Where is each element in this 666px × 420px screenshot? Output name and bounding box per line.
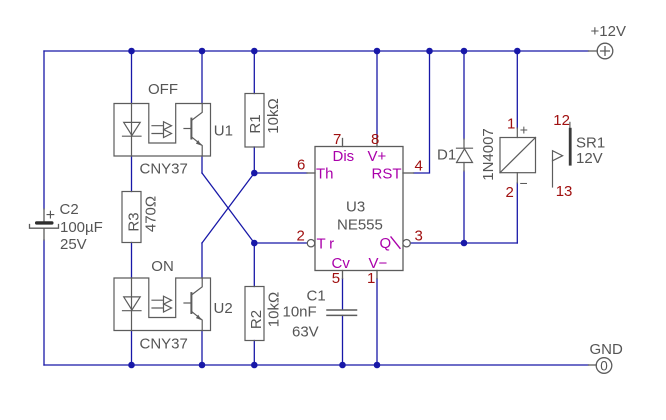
svg-text:+: +: [46, 207, 55, 224]
svg-text:V+: V+: [368, 148, 387, 165]
svg-text:R2: R2: [248, 310, 265, 329]
svg-text:U3: U3: [346, 199, 365, 216]
svg-text:1: 1: [507, 116, 515, 133]
wire: top rail to U1 LED anode: [131, 51, 133, 104]
wire: pin 1 V- to ground rail: [376, 279, 378, 366]
junction top rail at pin 8: [374, 48, 381, 55]
svg-text:3: 3: [415, 228, 423, 245]
wire: U2 emitter to ground rail: [201, 331, 203, 366]
wire: pin 5 Cv to C1 top: [342, 279, 344, 310]
wire: R2 bottom to ground rail: [253, 341, 255, 366]
junction node Th/R1: [251, 170, 258, 177]
svg-text:SR1: SR1: [576, 135, 605, 152]
wire: top rail to D1 cathode: [463, 51, 465, 139]
junction top rail at U1 LED: [128, 48, 135, 55]
wire: pin 4 RST to top rail: [414, 51, 430, 173]
junction Q line at D1: [461, 240, 468, 247]
ground terminal GND: [589, 358, 612, 374]
diode D1: [457, 139, 473, 171]
junction ground rail at pin 1: [374, 362, 381, 369]
pin stub 5 Cv: [342, 271, 344, 279]
svg-text:7: 7: [333, 131, 341, 148]
wire: Tr node to pin 2 bubble: [254, 242, 307, 244]
pin stub 7 Dis: [342, 139, 344, 147]
relay SR1 contact: [553, 122, 571, 187]
svg-text:NE555: NE555: [337, 217, 383, 234]
svg-text:CNY37: CNY37: [140, 161, 188, 178]
svg-text:10kΩ: 10kΩ: [265, 98, 282, 133]
wire: U2 LED cathode to ground rail: [131, 331, 133, 366]
svg-text:4: 4: [415, 158, 423, 175]
pin 2 inverting bubble: [307, 240, 314, 247]
optocoupler U1: [114, 104, 211, 157]
svg-text:100µF: 100µF: [60, 219, 103, 236]
junction top rail at R1: [251, 48, 258, 55]
svg-text:13: 13: [556, 183, 573, 200]
svg-text:+: +: [520, 121, 528, 137]
svg-text:−: −: [520, 175, 528, 191]
svg-text:ON: ON: [151, 258, 174, 275]
op-amp-style IC U3 NE555 box: [315, 147, 403, 271]
wire: top rail to U1 collector: [201, 51, 203, 104]
svg-text:2: 2: [506, 184, 514, 201]
svg-text:10nF: 10nF: [283, 304, 317, 321]
svg-text:2: 2: [297, 228, 305, 245]
svg-text:1N4007: 1N4007: [480, 128, 497, 181]
svg-text:63V: 63V: [292, 324, 319, 341]
capacitor C2: [30, 207, 59, 240]
wire: C1 bottom to ground rail: [342, 316, 344, 366]
wire: down to U2 collector: [201, 243, 203, 278]
svg-text:10kΩ: 10kΩ: [265, 292, 282, 327]
pin 3 inverting bubble: [403, 240, 410, 247]
svg-text:Tr: Tr: [317, 235, 339, 252]
svg-text:+12V: +12V: [591, 23, 626, 40]
svg-text:R3: R3: [126, 212, 143, 231]
svg-text:Th: Th: [316, 165, 334, 182]
wire: R3 bottom to U2 LED anode: [131, 243, 133, 279]
wire: U1 emitter down: [201, 156, 203, 173]
junction ground rail at U2 LED: [128, 362, 135, 369]
wire: diagonal U1 emitter to Tr node: [202, 173, 254, 243]
svg-text:Q: Q: [380, 235, 392, 252]
svg-text:6: 6: [297, 157, 305, 174]
svg-text:C2: C2: [60, 201, 79, 218]
svg-text:GND: GND: [590, 341, 624, 358]
wire: top rail to pin 8 V+: [376, 51, 378, 139]
resistor R2: [245, 287, 264, 341]
wire: pin 3 Q\ output line: [411, 242, 518, 244]
wire: GND bottom rail: [44, 364, 589, 366]
wire: left rail lower segment: [43, 240, 45, 365]
pin stub 1 V-: [376, 271, 378, 279]
junction ground rail at C1: [339, 362, 346, 369]
svg-text:OFF: OFF: [148, 81, 178, 98]
junction ground rail at R2: [251, 362, 258, 369]
svg-text:12V: 12V: [576, 150, 603, 167]
resistor R1: [245, 94, 264, 148]
svg-text:RST: RST: [372, 165, 402, 182]
relay SR1 coil: [500, 128, 536, 183]
wire: top rail to relay pin 1: [516, 51, 518, 128]
svg-text:R1: R1: [247, 114, 264, 133]
junction top rail at D1: [461, 48, 468, 55]
svg-text:C1: C1: [307, 288, 326, 305]
svg-text:CNY37: CNY37: [140, 336, 188, 353]
svg-text:5: 5: [332, 270, 340, 287]
svg-text:U2: U2: [214, 300, 233, 317]
svg-text:25V: 25V: [60, 236, 87, 253]
wire: Th node to pin 6: [254, 172, 307, 174]
junction ground rail at U2 emitter: [199, 362, 206, 369]
svg-text:Dis: Dis: [333, 148, 355, 165]
pin stub 6 Th: [307, 172, 315, 174]
junction top rail at RST riser: [426, 48, 433, 55]
pin stub 4 RST: [403, 172, 414, 174]
capacitor C1: [327, 310, 357, 315]
junction node Tr/R2: [251, 240, 258, 247]
wire: R1 bottom to Th node: [253, 147, 255, 173]
wire: Tr node down to R2 top: [253, 243, 255, 287]
svg-text:U1: U1: [214, 122, 233, 139]
wire: D1 anode to Q line: [463, 171, 465, 243]
optocoupler U2: [114, 278, 211, 331]
svg-text:8: 8: [371, 131, 379, 148]
wire: +12V top rail: [44, 50, 589, 52]
wire: top rail to R1 top: [253, 51, 255, 94]
wire: diagonal Th node to U2 collector: [202, 173, 254, 243]
wire: relay pin 2 to Q line: [516, 183, 518, 243]
svg-text:0: 0: [600, 359, 608, 374]
wire: left rail upper segment: [43, 51, 45, 209]
resistor R3: [122, 192, 141, 243]
junction top rail at relay: [514, 48, 521, 55]
svg-text:1: 1: [367, 270, 375, 287]
svg-text:470Ω: 470Ω: [143, 196, 160, 232]
junction top rail at U1 collector: [199, 48, 206, 55]
power terminal +12V: [589, 43, 613, 59]
pin stub 8 V+: [376, 139, 378, 147]
svg-text:12: 12: [553, 112, 570, 129]
svg-text:D1: D1: [437, 147, 456, 164]
wire: U1 LED cathode to R3 top: [131, 156, 133, 192]
